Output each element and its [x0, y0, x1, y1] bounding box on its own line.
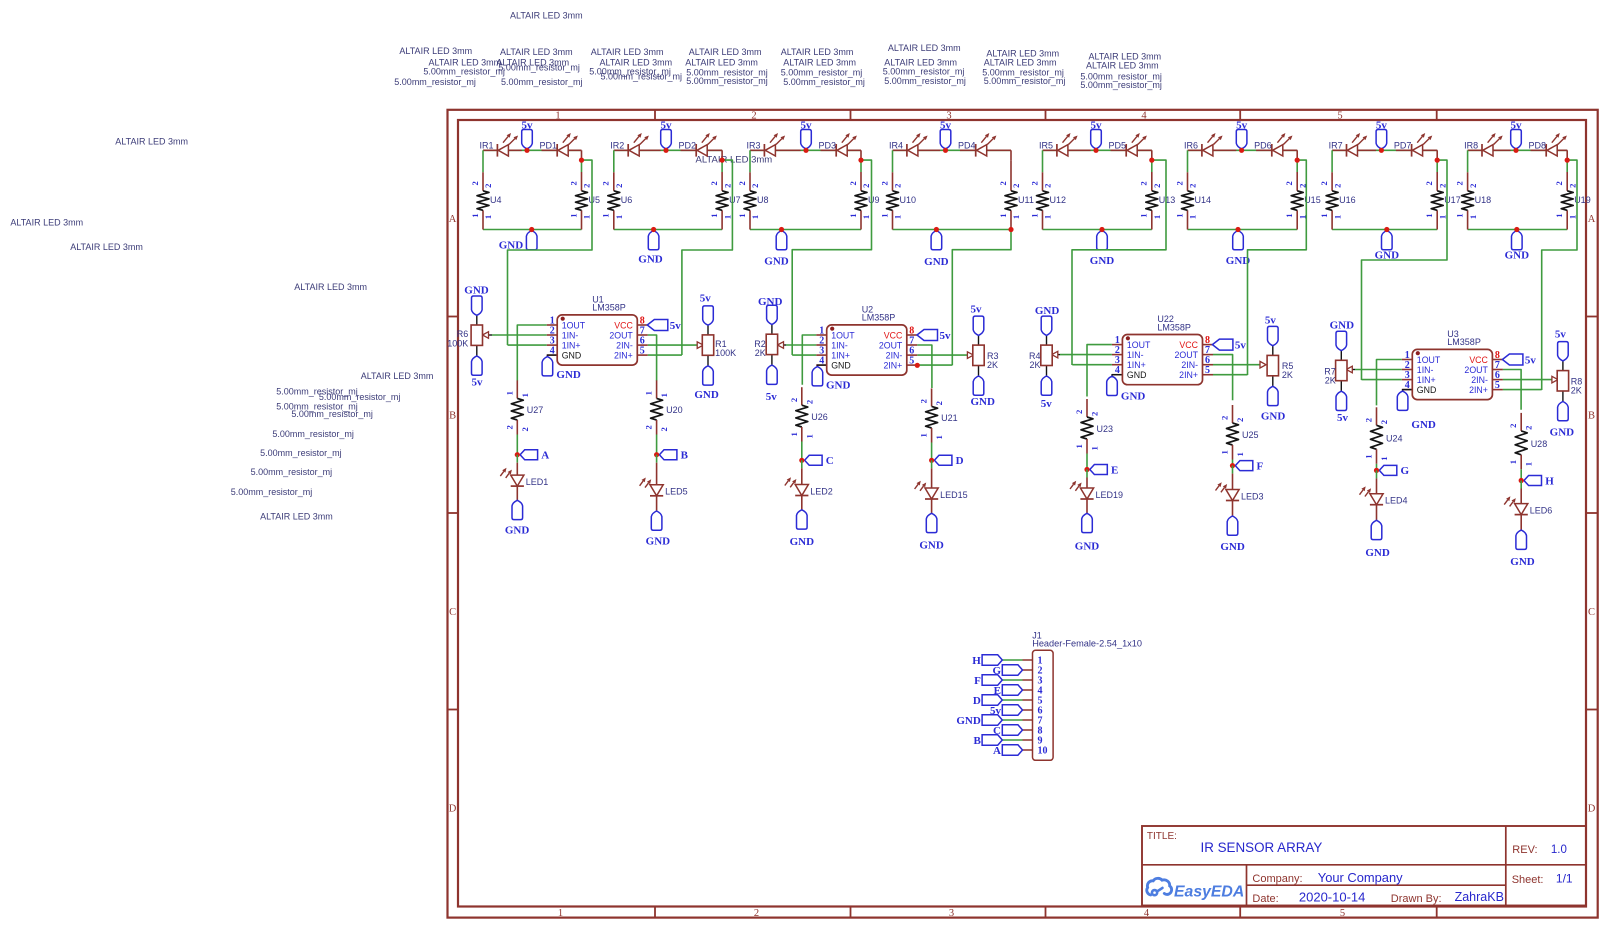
svg-text:LED15: LED15 [940, 490, 968, 500]
wire J1 pin 7 [1023, 719, 1033, 721]
svg-text:B: B [449, 411, 456, 422]
photodiode PD2 [697, 145, 707, 156]
wire node to LED LED19 [1086, 470, 1088, 478]
svg-text:1: 1 [709, 213, 719, 217]
svg-text:GND: GND [790, 536, 815, 548]
svg-text:1: 1 [893, 215, 903, 219]
wire bottom rail block 5 [1043, 229, 1152, 231]
ground flag U3 [1397, 391, 1408, 410]
wire resistor to node G [1376, 449, 1378, 464]
svg-text:R6: R6 [457, 329, 469, 339]
svg-text:1: 1 [1074, 444, 1084, 448]
net flag C at J1 pin 8 [1002, 725, 1022, 735]
wire J1 pin 10 [1023, 749, 1033, 751]
wire into resistor U20 [656, 380, 658, 398]
svg-text:2: 2 [1332, 184, 1342, 188]
svg-text:U11: U11 [1018, 195, 1034, 205]
potentiometer R7 body [1336, 360, 1347, 380]
svg-text:U7: U7 [729, 195, 741, 205]
junction node G [1374, 468, 1379, 473]
svg-text:1: 1 [879, 213, 889, 217]
svg-text:1: 1 [1508, 460, 1518, 464]
wire right drop block 3 [860, 150, 862, 160]
svg-text:2K: 2K [987, 360, 998, 370]
svg-text:2: 2 [470, 181, 480, 185]
svg-text:1: 1 [737, 213, 747, 217]
resistor U25 [1227, 423, 1239, 445]
svg-text:D: D [956, 455, 964, 467]
svg-text:B: B [973, 735, 981, 747]
svg-text:2IN-: 2IN- [1181, 360, 1198, 370]
EasyEDA logo cloud [1147, 878, 1172, 895]
potentiometer R3 bottom stub [978, 366, 980, 377]
potentiometer R3 top stub [978, 335, 980, 345]
svg-text:1.0: 1.0 [1551, 844, 1567, 856]
svg-text:5v: 5v [670, 320, 682, 332]
junction node F [1230, 463, 1235, 468]
svg-text:ALTAIR LED 3mm: ALTAIR LED 3mm [591, 47, 664, 57]
junction node D [929, 458, 934, 463]
svg-text:1: 1 [614, 215, 624, 219]
wire node to LED LED4 [1376, 470, 1378, 478]
svg-text:5v: 5v [940, 330, 952, 342]
svg-text:5v: 5v [1041, 398, 1053, 410]
svg-text:GND: GND [1127, 370, 1147, 380]
svg-text:1: 1 [934, 435, 944, 439]
potentiometer R7 bottom stub [1340, 381, 1342, 392]
svg-text:5v: 5v [1337, 412, 1349, 424]
potentiometer R1 bottom stub [707, 355, 709, 366]
svg-text:D: D [449, 804, 457, 815]
svg-text:2: 2 [934, 401, 944, 405]
svg-text:2: 2 [582, 184, 592, 188]
ground flag below LED19 [1082, 513, 1093, 532]
svg-text:1: 1 [1364, 454, 1374, 458]
svg-text:D: D [973, 695, 981, 707]
svg-text:ALTAIR LED 3mm: ALTAIR LED 3mm [984, 58, 1057, 68]
svg-text:2: 2 [1220, 416, 1230, 420]
svg-text:5.00mm_resistor_mj: 5.00mm_resistor_mj [272, 429, 354, 439]
net flag 5v at J1 pin 6 [1002, 705, 1022, 715]
svg-text:1: 1 [659, 393, 669, 397]
ground flag block 4 [931, 231, 942, 250]
net flag B [659, 450, 677, 460]
wire sense tap block 4 [952, 230, 1011, 366]
photodiode PD6 [1273, 145, 1283, 156]
op-amp U22 body [1122, 335, 1202, 385]
net flag G [1379, 465, 1397, 475]
svg-text:PD1: PD1 [540, 140, 558, 150]
svg-text:2: 2 [879, 181, 889, 185]
net flag B at J1 pin 9 [982, 735, 1002, 745]
junction under 5v block 4 [943, 148, 948, 153]
svg-text:ALTAIR LED 3mm: ALTAIR LED 3mm [781, 47, 854, 57]
svg-text:2K: 2K [755, 348, 766, 358]
svg-text:PD6: PD6 [1254, 140, 1272, 150]
IR LED IR6 [1203, 145, 1213, 156]
power flag 5v block 6 [1236, 130, 1247, 149]
wire left drop block 7 [1331, 150, 1333, 172]
IR LED IR8 [1483, 145, 1493, 156]
net flag GND above R4 [1041, 316, 1052, 335]
resistor U7 [716, 191, 728, 211]
svg-text:2: 2 [737, 181, 747, 185]
svg-text:E: E [1111, 464, 1118, 476]
LED LED2 [795, 485, 808, 496]
svg-text:1: 1 [750, 215, 760, 219]
potentiometer R6 body [471, 325, 482, 345]
svg-text:LED4: LED4 [1385, 496, 1408, 506]
svg-text:U24: U24 [1386, 433, 1403, 443]
resistor U10 [887, 191, 899, 211]
title block divider logo [1246, 865, 1248, 906]
wire bottom rail block 1 [483, 229, 582, 231]
op-amp U3 pin stubs [1402, 359, 1413, 361]
svg-text:U8: U8 [757, 195, 769, 205]
wire U2 pin5 from sensor [917, 364, 952, 366]
svg-text:2: 2 [601, 181, 611, 185]
junction under 5v block 5 [1093, 148, 1098, 153]
svg-text:A: A [993, 745, 1001, 757]
svg-text:LED3: LED3 [1241, 491, 1264, 501]
svg-text:U21: U21 [941, 413, 958, 423]
wire LED to ground LED4 [1376, 505, 1378, 521]
potentiometer R4 body [1041, 345, 1052, 365]
ground flag below LED4 [1371, 520, 1382, 539]
svg-text:C: C [449, 607, 456, 618]
wire LED to ground LED6 [1520, 515, 1522, 531]
svg-text:2: 2 [1364, 418, 1374, 422]
resistor U24 [1371, 425, 1383, 449]
svg-text:2: 2 [568, 181, 578, 185]
svg-text:5v: 5v [661, 119, 673, 131]
svg-text:1: 1 [644, 391, 654, 395]
wire node to LED LED1 [516, 455, 518, 463]
svg-text:ALTAIR LED 3mm: ALTAIR LED 3mm [115, 137, 188, 147]
svg-text:2OUT: 2OUT [1464, 365, 1488, 375]
net flag E [1090, 465, 1108, 475]
op-amp U2 pin stubs [816, 334, 827, 336]
junction at GND block 2 [651, 227, 656, 232]
svg-text:B: B [1588, 411, 1595, 422]
svg-text:IR7: IR7 [1329, 140, 1343, 150]
svg-text:1: 1 [998, 213, 1008, 217]
svg-text:5v: 5v [700, 292, 712, 304]
svg-text:1: 1 [919, 433, 929, 437]
svg-text:2: 2 [1152, 184, 1162, 188]
resistor U27 [511, 398, 523, 420]
svg-text:IR8: IR8 [1464, 140, 1478, 150]
svg-text:LM358P: LM358P [592, 303, 626, 313]
svg-text:VCC: VCC [884, 330, 903, 340]
junction at GND block 1 [529, 227, 534, 232]
svg-text:1: 1 [1379, 456, 1389, 460]
svg-text:1: 1 [555, 111, 560, 122]
border row tick [448, 316, 459, 318]
ground flag below LED5 [651, 511, 662, 530]
svg-text:GND: GND [970, 396, 995, 408]
svg-text:GND: GND [1365, 547, 1390, 559]
photodiode PD1 [558, 145, 568, 156]
svg-text:2OUT: 2OUT [1175, 350, 1199, 360]
wire U2 pin3 from sensor [792, 354, 816, 356]
svg-text:2OUT: 2OUT [609, 330, 633, 340]
svg-text:5: 5 [640, 346, 645, 357]
svg-text:5.00mm_resistor_mj: 5.00mm_resistor_mj [884, 76, 966, 86]
svg-text:1: 1 [804, 434, 814, 438]
wire into resistor U23 [1086, 399, 1088, 417]
wire top rail block 1 [483, 149, 582, 151]
wire U2 pin1 to resistor [802, 335, 816, 385]
svg-text:IR5: IR5 [1039, 140, 1053, 150]
svg-text:2: 2 [998, 181, 1008, 185]
border column tick [654, 110, 656, 120]
svg-text:1: 1 [520, 393, 530, 397]
svg-text:1: 1 [1174, 213, 1184, 217]
svg-text:GND: GND [1220, 541, 1245, 553]
svg-text:Your Company: Your Company [1318, 870, 1403, 885]
wire left drop block 8 [1467, 150, 1469, 172]
svg-text:1IN+: 1IN+ [562, 341, 581, 351]
net flag GND above R6 [472, 296, 483, 315]
net flag F at J1 pin 3 [982, 675, 1002, 685]
IR LED IR3 [765, 145, 775, 156]
resistor U17 [1431, 191, 1443, 211]
svg-text:2: 2 [1424, 181, 1434, 185]
power flag 5v block 2 [661, 130, 672, 149]
svg-text:1: 1 [1090, 446, 1100, 450]
svg-text:1: 1 [1332, 215, 1342, 219]
resistor U16 [1326, 191, 1338, 211]
svg-text:2: 2 [1188, 184, 1198, 188]
svg-text:4: 4 [1405, 380, 1410, 391]
net flag 5v above R5 [1268, 326, 1279, 345]
resistor U4 [477, 191, 489, 211]
resistor U18 [1462, 191, 1474, 211]
svg-text:1: 1 [1029, 213, 1039, 217]
ground flag below LED15 [926, 513, 937, 532]
wire right drop block 6 [1296, 150, 1298, 160]
svg-text:4: 4 [819, 356, 824, 367]
svg-text:PD5: PD5 [1109, 140, 1127, 150]
svg-text:5.00mm_resistor_mj: 5.00mm_resistor_mj [260, 448, 342, 458]
svg-text:ALTAIR LED 3mm: ALTAIR LED 3mm [888, 43, 961, 53]
svg-text:Header-Female-2.54_1x10: Header-Female-2.54_1x10 [1032, 639, 1142, 649]
junction under 5v block 8 [1513, 148, 1518, 153]
svg-text:C: C [1588, 607, 1595, 618]
wire sense tap block 1 [508, 160, 593, 345]
svg-text:5v: 5v [472, 377, 484, 389]
resistor U8 [744, 191, 756, 211]
border column tick [1239, 110, 1241, 120]
wire LED to ground LED19 [1086, 499, 1088, 513]
ground flag below LED2 [797, 510, 808, 529]
wire into resistor U26 [801, 387, 803, 405]
ground flag U22 [1107, 376, 1118, 395]
photodiode PD4 [977, 145, 987, 156]
svg-text:GND: GND [758, 296, 783, 308]
svg-text:GND: GND [1417, 385, 1437, 395]
svg-text:1: 1 [582, 215, 592, 219]
svg-text:2: 2 [861, 184, 871, 188]
wire J1 pin 3 [1023, 679, 1033, 681]
wire J1 pin 1 [1023, 659, 1033, 661]
svg-text:2: 2 [1319, 181, 1329, 185]
svg-text:2: 2 [893, 184, 903, 188]
svg-text:5v: 5v [1235, 339, 1247, 351]
wire node to LED LED15 [931, 460, 933, 468]
svg-text:100K: 100K [715, 348, 736, 358]
net flag GND below R3 [973, 376, 984, 395]
wire U22 pin1 to resistor [1087, 345, 1112, 397]
svg-text:2: 2 [1235, 418, 1245, 422]
potentiometer R5 top stub [1272, 346, 1274, 356]
svg-text:5: 5 [1205, 365, 1210, 376]
net flag C [805, 455, 823, 465]
wire J1 pin 2 [1023, 669, 1033, 671]
svg-text:1: 1 [601, 213, 611, 217]
wire U22 pin2 to pot wiper [1060, 354, 1112, 356]
wire U3 pin4 to ground [1403, 390, 1413, 392]
svg-text:IR SENSOR ARRAY: IR SENSOR ARRAY [1201, 840, 1323, 855]
svg-text:2: 2 [1554, 181, 1564, 185]
wire resistor to node A [516, 420, 518, 435]
potentiometer R5 body [1267, 355, 1278, 375]
photodiode PD3 [837, 145, 847, 156]
svg-text:5.00mm_resistor_mj: 5.00mm_resistor_mj [686, 76, 768, 86]
svg-text:2: 2 [1437, 184, 1447, 188]
wire left drop block 2 [613, 150, 615, 172]
resistor U20 [651, 398, 663, 420]
wire into resistor U27 [516, 380, 518, 398]
svg-text:1OUT: 1OUT [1417, 355, 1441, 365]
svg-text:U25: U25 [1242, 430, 1259, 440]
wire right drop block 7 [1436, 150, 1438, 160]
svg-text:VCC: VCC [1469, 355, 1488, 365]
junction tap block 1 [579, 158, 584, 163]
svg-text:4: 4 [550, 346, 555, 357]
LED LED1 [511, 475, 524, 486]
net flag 5v below R6 [472, 356, 483, 375]
wire U22 pin5 from sensor [1213, 374, 1248, 376]
op-amp U1 body [557, 315, 637, 365]
svg-text:2: 2 [1454, 181, 1464, 185]
wire LED to ground LED2 [801, 496, 803, 510]
svg-text:GND: GND [1121, 390, 1146, 402]
svg-text:LM358P: LM358P [1157, 322, 1191, 332]
wire LED to ground LED1 [516, 486, 518, 500]
net flag H [1524, 476, 1542, 486]
svg-text:2: 2 [1524, 426, 1534, 430]
ground flag U2 [812, 367, 823, 386]
svg-text:LED2: LED2 [810, 486, 833, 496]
resistor U9 [855, 191, 867, 211]
svg-text:2: 2 [722, 184, 732, 188]
svg-text:LED6: LED6 [1530, 505, 1553, 515]
svg-text:GND: GND [694, 389, 719, 401]
LED LED15 [925, 488, 938, 499]
svg-text:4: 4 [1144, 908, 1150, 919]
svg-text:2IN+: 2IN+ [1469, 385, 1488, 395]
svg-text:5.00mm_resistor_mj: 5.00mm_resistor_mj [984, 76, 1066, 86]
IR LED IR7 [1347, 145, 1357, 156]
svg-text:2: 2 [1284, 181, 1294, 185]
wire LED to ground LED5 [656, 496, 658, 511]
svg-text:1IN+: 1IN+ [831, 351, 850, 361]
junction at GND block 5 [1099, 227, 1104, 232]
svg-text:1: 1 [1454, 213, 1464, 217]
svg-text:2: 2 [520, 427, 530, 431]
wire LED to ground LED3 [1232, 501, 1234, 517]
IR LED IR2 [629, 145, 639, 156]
svg-text:5.00mm_resistor_mj: 5.00mm_resistor_mj [498, 63, 580, 73]
svg-text:5.00mm_resistor_mj: 5.00mm_resistor_mj [231, 487, 313, 497]
wire U2 pin2 to pot wiper [786, 344, 816, 346]
ground flag below LED3 [1227, 516, 1238, 535]
svg-text:ALTAIR LED 3mm: ALTAIR LED 3mm [361, 371, 434, 381]
svg-text:2: 2 [1139, 181, 1149, 185]
svg-text:1IN-: 1IN- [562, 330, 579, 340]
net flag A at J1 pin 10 [1002, 745, 1022, 755]
potentiometer R1 top stub [707, 325, 709, 335]
svg-text:5.00mm_resistor_mj: 5.00mm_resistor_mj [601, 72, 683, 82]
power flag 5v block 8 [1511, 130, 1522, 149]
wire resistor to node E [1086, 439, 1088, 454]
ground flag block 7 [1382, 231, 1393, 250]
net flag 5v above R3 [973, 316, 984, 335]
junction at GND block 3 [779, 227, 784, 232]
svg-text:GND: GND [1550, 426, 1575, 438]
svg-text:5v: 5v [971, 304, 983, 316]
potentiometer R2 bottom stub [771, 355, 773, 366]
svg-text:U18: U18 [1475, 195, 1492, 205]
svg-text:VCC: VCC [614, 320, 633, 330]
junction tap block 6 [1295, 158, 1300, 163]
svg-text:1: 1 [483, 215, 493, 219]
svg-text:5v: 5v [1555, 328, 1567, 340]
wire resistor to node D [931, 428, 933, 443]
wire U3 pin2 to pot wiper [1355, 369, 1402, 371]
svg-text:2020-10-14: 2020-10-14 [1299, 889, 1366, 904]
svg-text:2: 2 [709, 181, 719, 185]
svg-text:IR1: IR1 [480, 140, 494, 150]
wire sense tap block 5 [1072, 160, 1166, 365]
border column tick [1436, 110, 1438, 120]
wire U22 pin7 to resistor [1213, 355, 1233, 401]
svg-text:LM358P: LM358P [862, 313, 896, 323]
junction at GND block 6 [1235, 227, 1240, 232]
svg-text:LED19: LED19 [1096, 490, 1124, 500]
svg-text:5.00mm_resistor_mj: 5.00mm_resistor_mj [1080, 80, 1162, 90]
junction under 5v block 3 [803, 148, 808, 153]
svg-text:2: 2 [1074, 410, 1084, 414]
power flag 5v U3 VCC [1502, 354, 1523, 365]
wire right drop block 8 [1566, 150, 1568, 160]
border row tick [448, 512, 459, 514]
svg-text:A: A [1588, 214, 1596, 225]
svg-text:IR3: IR3 [747, 140, 761, 150]
svg-text:VCC: VCC [1179, 340, 1198, 350]
svg-text:GND: GND [764, 256, 789, 268]
svg-text:GND: GND [1510, 556, 1535, 568]
svg-text:U13: U13 [1159, 195, 1176, 205]
svg-text:1: 1 [1011, 215, 1021, 219]
svg-text:Company:: Company: [1252, 873, 1302, 885]
wire U2 pin7 to resistor [917, 345, 932, 388]
power flag 5v U2 VCC [917, 330, 938, 341]
wire U1 pin2 to pot wiper [492, 334, 547, 336]
svg-text:U10: U10 [900, 195, 917, 205]
